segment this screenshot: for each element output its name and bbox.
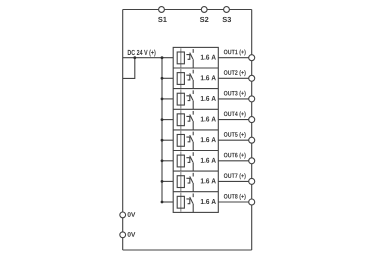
breaker contact Q2: latch hook <box>186 75 189 80</box>
breaker contact Q8: latch hook <box>186 199 189 204</box>
fuse F7 element line <box>180 172 182 191</box>
label OUT5 (+) <box>224 132 246 138</box>
breaker contact Q8: blade <box>190 197 193 203</box>
fuse F8 body <box>177 196 184 208</box>
fuse F1 element line <box>180 48 182 67</box>
breaker contact Q7: lower terminal <box>192 183 194 192</box>
wire: divider between channel 2 and 3 <box>173 88 218 90</box>
breaker contact Q4: lower terminal <box>192 121 194 130</box>
fuse F2 element line <box>180 69 182 88</box>
value label 1.6 A channel 8 <box>201 199 216 204</box>
wire: branch to channel 5 <box>162 139 173 141</box>
wire: output of channel 7 <box>218 180 248 182</box>
fuse F8 element line <box>180 193 182 212</box>
wire: branch to channel 3 <box>162 98 173 100</box>
label S1 <box>158 17 167 22</box>
breaker contact Q7: latch hook <box>186 178 189 183</box>
breaker contact Q6: lower terminal <box>192 162 194 171</box>
breaker contact Q2: lower terminal <box>192 80 194 89</box>
breaker contact Q3: latch hook <box>186 96 189 101</box>
breaker contact Q7: upper terminal dash <box>192 173 194 177</box>
wire: branch to channel 6 <box>162 160 173 162</box>
label 0 V upper <box>128 212 136 217</box>
fuse F6 body <box>177 155 184 167</box>
breaker contact Q6: blade <box>190 156 193 162</box>
fuse F5 element line <box>180 131 182 150</box>
wire: divider between channel 6 and 7 <box>173 170 218 172</box>
terminal OUT7 <box>249 178 255 184</box>
wire: output of channel 5 <box>218 139 248 141</box>
label OUT1 (+) <box>224 49 246 55</box>
label OUT3 (+) <box>224 91 246 97</box>
label S3 <box>222 17 231 22</box>
terminal OUT5 <box>249 137 255 143</box>
breaker contact Q1: latch hook <box>186 55 189 60</box>
fuse F5 body <box>177 134 184 146</box>
breaker contact Q5: blade <box>190 135 193 141</box>
fuse F2 body <box>177 73 184 85</box>
value label 1.6 A channel 7 <box>201 178 216 183</box>
wire: DC 24V(+) feed line <box>123 57 174 59</box>
wire: divider between channel 3 and 4 <box>173 108 218 110</box>
terminal OUT3 <box>249 96 255 102</box>
label 0 V lower <box>128 232 136 237</box>
breaker contact Q2: upper terminal dash <box>192 70 194 74</box>
value label 1.6 A channel 1 <box>201 55 216 60</box>
breaker contact Q1: lower terminal <box>192 59 194 68</box>
breaker contact Q5: latch hook <box>186 137 189 142</box>
breaker contact Q1: upper terminal dash <box>192 49 194 53</box>
wire: distribution bus <box>161 58 163 202</box>
wire: branch to channel 2 <box>162 77 173 79</box>
wire: divider between channel 1 and 2 <box>173 67 218 69</box>
label S2 <box>200 17 209 22</box>
node: bus junction channel 8 <box>161 201 164 204</box>
wire: top supply rail <box>123 9 252 11</box>
fuse F4 body <box>177 114 184 126</box>
wire: output of channel 1 <box>218 57 248 59</box>
label OUT2 (+) <box>224 70 246 76</box>
fuse F4 element line <box>180 110 182 129</box>
breaker contact Q1: blade <box>190 53 193 59</box>
terminal 0V upper <box>120 212 126 218</box>
wire: divider between channel 4 and 5 <box>173 129 218 131</box>
fuse F3 element line <box>180 90 182 109</box>
value label 1.6 A channel 3 <box>201 96 216 101</box>
wire: divider between channel 7 and 8 <box>173 191 218 193</box>
fuse F3 body <box>177 93 184 105</box>
breaker contact Q5: lower terminal <box>192 142 194 151</box>
wire: left vertical line <box>122 10 124 251</box>
breaker contact Q6: upper terminal dash <box>192 152 194 156</box>
wire: branch to channel 4 <box>162 119 173 121</box>
fuse F7 body <box>177 176 184 188</box>
breaker contact Q3: blade <box>190 94 193 100</box>
terminal S2 <box>201 7 207 13</box>
label OUT8 (+) <box>224 194 246 200</box>
terminal S1 <box>159 7 165 13</box>
breaker contact Q3: lower terminal <box>192 100 194 109</box>
breaker contact Q4: blade <box>190 114 193 120</box>
breaker contact Q8: lower terminal <box>192 204 194 213</box>
breaker contact Q4: latch hook <box>186 116 189 121</box>
wire: branch to channel 8 <box>162 201 173 203</box>
terminal OUT4 <box>249 117 255 123</box>
fuse F6 element line <box>180 151 182 170</box>
breaker contact Q5: upper terminal dash <box>192 132 194 136</box>
node: bus junction channel 3 <box>161 98 164 101</box>
wire: divider between channel 5 and 6 <box>173 150 218 152</box>
node: bus junction channel 7 <box>161 180 164 183</box>
terminal 0V lower <box>120 232 126 238</box>
wire: feed jog segment <box>123 58 135 79</box>
fuse F1 body <box>177 52 184 64</box>
wire: output of channel 4 <box>218 119 248 121</box>
value label 1.6 A channel 4 <box>201 117 216 122</box>
node: bus junction channel 6 <box>161 159 164 162</box>
terminal OUT8 <box>249 199 255 205</box>
wire: right vertical output rail <box>251 10 253 251</box>
node: bus junction channel 5 <box>161 139 164 142</box>
label OUT4 (+) <box>224 111 246 117</box>
node: bus junction channel 1 <box>161 56 164 59</box>
wire: output of channel 6 <box>218 160 248 162</box>
terminal OUT1 <box>249 55 255 61</box>
node: bus junction channel 2 <box>161 77 164 80</box>
label OUT6 (+) <box>224 153 246 159</box>
terminal OUT2 <box>249 75 255 81</box>
breaker contact Q2: blade <box>190 73 193 79</box>
breaker contact Q7: blade <box>190 176 193 182</box>
terminal OUT6 <box>249 158 255 164</box>
breaker contact Q4: upper terminal dash <box>192 111 194 115</box>
value label 1.6 A channel 6 <box>201 158 216 163</box>
wire: branch to channel 7 <box>162 180 173 182</box>
label OUT7 (+) <box>224 173 246 179</box>
node: feed jog junction <box>133 56 136 59</box>
value label 1.6 A channel 5 <box>201 137 216 142</box>
breaker contact Q3: upper terminal dash <box>192 90 194 94</box>
breaker module outline U1 <box>173 47 218 212</box>
wire: output of channel 2 <box>218 77 248 79</box>
node: bus junction channel 4 <box>161 118 164 121</box>
wire: bottom return line <box>123 249 252 251</box>
value label 1.6 A channel 2 <box>201 75 216 80</box>
breaker contact Q8: upper terminal dash <box>192 193 194 197</box>
wire: output of channel 8 <box>218 201 248 203</box>
label DC 24 V (+) <box>128 50 156 57</box>
breaker contact Q6: latch hook <box>186 158 189 163</box>
terminal S3 <box>224 7 230 13</box>
wire: output of channel 3 <box>218 98 248 100</box>
